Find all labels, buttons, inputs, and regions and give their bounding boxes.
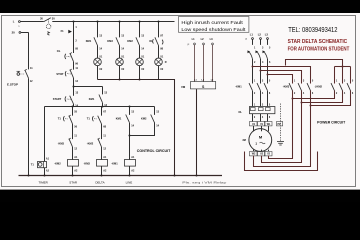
STOP NC tick — [70, 69, 72, 70]
E.STOP NC tick — [24, 69, 26, 70]
svg-text:R: R — [165, 61, 167, 64]
KM2 pole 1 top wire — [334, 67, 336, 84]
E.STOP column lower wire to bus — [28, 78, 30, 175]
junction bus / lamp rail — [174, 175, 176, 177]
supply terminal L1 — [252, 38, 254, 40]
KM2 pole 2 top wire — [342, 67, 344, 84]
tap wire L3 to KM3 pole — [268, 75, 293, 84]
T1 star actuator link — [65, 118, 68, 120]
svg-text:STAR: STAR — [69, 180, 78, 184]
STOP actuator arc — [64, 71, 67, 76]
delta coil wire to bus — [101, 166, 103, 175]
breaker pole 3 blade — [264, 52, 267, 59]
svg-text:-KM3: -KM3 — [58, 141, 65, 145]
main column wire to node A — [73, 104, 75, 107]
motor terminal V1 box — [258, 122, 266, 126]
KM1 pole 1 lower wire — [252, 91, 254, 107]
junction line branch / KM2 aux — [129, 135, 131, 137]
supply wire L1 upper — [252, 39, 254, 45]
junction top rail / lamp branch 3 — [139, 21, 141, 23]
star branch wire to coil — [72, 147, 74, 160]
OL heater element 1 — [251, 108, 256, 111]
svg-text:-KM1: -KM1 — [235, 84, 242, 88]
push button START NO blade — [70, 96, 74, 104]
svg-text:OL: OL — [57, 49, 61, 53]
junction bus / star coil — [72, 175, 74, 177]
junction top rail / main column — [73, 21, 75, 23]
contactor KM3 pole 3 blade — [307, 83, 311, 91]
aux contact KM2 NO blade — [151, 115, 155, 123]
main column wire OL to STOP — [73, 62, 75, 70]
motor terminal V2 box — [265, 152, 273, 156]
svg-text:KM1: KM1 — [89, 97, 95, 101]
junction bus / timer — [44, 175, 46, 177]
rail1 wire to latch contact — [74, 86, 103, 88]
contactor KM1 pole 1 blade — [249, 83, 253, 91]
contactor KM3 pole 2 blade — [298, 83, 302, 91]
svg-text:KM2: KM2 — [141, 117, 147, 121]
tap wire L2 to KM3 pole — [261, 71, 302, 84]
thermal OL actuator arc left — [152, 39, 155, 43]
KM2 aux branch wire upper — [154, 107, 156, 115]
timer T1 body — [38, 162, 47, 168]
KM1 pole 2 lower wire — [260, 91, 262, 107]
tap junction L2 — [260, 70, 262, 72]
KM2 top bar wire — [335, 66, 351, 68]
thermal OL actuator hook — [161, 40, 164, 45]
svg-text:-KM3: -KM3 — [283, 84, 290, 88]
line branch wire upper — [129, 107, 131, 115]
breaker pole 2 blade — [257, 52, 260, 59]
contactor KM2 pole 3 blade — [347, 83, 351, 91]
E.STOP mushroom cap — [17, 70, 21, 72]
motor M 3 phase — [249, 129, 272, 152]
VM feed wire L1 — [194, 45, 196, 82]
phase column L2 wire — [260, 59, 262, 84]
lamp branch 3 wire middle — [139, 46, 141, 59]
disconnect switch blade — [44, 18, 51, 22]
junction top rail / lamp branch 1 — [97, 21, 99, 23]
timer T1 coil circle — [38, 163, 42, 167]
STOP actuator link — [67, 73, 71, 75]
ground symbol — [277, 142, 284, 146]
star coil wire to bus — [72, 166, 74, 175]
lamp 4 cross 2 — [156, 59, 161, 64]
svg-text:FOR AUTOMATION STUDENT: FOR AUTOMATION STUDENT — [288, 46, 350, 52]
junction lamp bus 2 — [119, 79, 121, 81]
wire U1 to motor — [253, 126, 255, 131]
svg-text:L1: L1 — [250, 33, 254, 37]
motor terminal U2 box — [258, 152, 266, 156]
switch symbol mark 2 — [47, 33, 49, 36]
wire motor to terminal V2 — [268, 150, 270, 151]
OL actuator arc — [64, 54, 67, 59]
delta branch wire middle — [101, 124, 103, 139]
junction bus / VM wire — [196, 175, 198, 177]
svg-text:POWER CIRCUIT: POWER CIRCUIT — [317, 121, 346, 125]
svg-text:-KM1: -KM1 — [111, 162, 118, 166]
contactor coil KM1 line — [125, 160, 136, 167]
junction top rail / lamp branch 4 — [158, 21, 160, 23]
KM2 feed stub wire — [286, 60, 343, 67]
switch actuator dashed circle — [46, 24, 51, 29]
aux contact OL blade lamp branch 4 — [155, 37, 159, 45]
indicator lamp 3 — [136, 58, 144, 66]
outer loop wire — [245, 152, 318, 171]
svg-text:START: START — [53, 97, 62, 101]
wire motor to terminal W2 — [253, 150, 255, 151]
contactor KM2 pole 2 blade — [339, 83, 343, 91]
supply terminal L3 — [267, 38, 269, 40]
star branch wire upper — [72, 107, 74, 116]
PE conductor wire — [280, 104, 282, 142]
fault note box — [179, 17, 249, 33]
svg-text:DELTA: DELTA — [95, 180, 104, 184]
junction KM2 bar — [342, 66, 344, 68]
motor terminal W1 box — [265, 122, 273, 126]
lamp branch 3 wire upper — [139, 22, 141, 38]
push button E.STOP NC blade — [25, 70, 29, 78]
svg-text:L3: L3 — [265, 33, 269, 37]
aux contact KM1 blade lamp branch 1 — [94, 37, 98, 45]
KM2 pole 2 link wire to KM3 column — [302, 91, 343, 103]
thermal overload relay box — [250, 107, 275, 114]
T1 delta actuator arc — [91, 116, 94, 121]
timer wire to bus — [44, 168, 46, 176]
KM2 pole 3 top wire — [350, 67, 352, 84]
timer branch wire — [44, 107, 46, 162]
lamp branch 1 wire upper — [97, 22, 99, 38]
terminal PE box — [277, 122, 283, 126]
lamp 4 cross 1 — [156, 59, 161, 64]
svg-text:OL: OL — [238, 110, 242, 114]
svg-text:TEL: 08039493412: TEL: 08039493412 — [288, 27, 337, 34]
motor terminal U1 box — [250, 122, 258, 126]
main column wire STOP to START — [73, 78, 75, 96]
KM3 NC tick — [69, 138, 71, 139]
T1 star actuator arc — [62, 116, 65, 121]
wire W1 to motor — [268, 126, 270, 131]
KM2 NC tick — [98, 138, 100, 139]
neutral bottom bus wire — [19, 175, 223, 177]
OL output wire 3 — [267, 114, 269, 122]
lamp 3 cross 2 — [137, 59, 142, 64]
line coil wire to bus — [129, 166, 131, 175]
svg-text:KM1: KM1 — [116, 117, 122, 121]
VM terminal L1 — [194, 43, 196, 45]
contactor KM1 pole 2 blade — [257, 83, 261, 91]
lamp branch 4 wire upper — [158, 22, 160, 38]
line branch wire to coil — [129, 123, 131, 160]
contactor coil KM3 delta — [97, 160, 108, 167]
junction node rail1 — [73, 86, 75, 88]
E.STOP column upper wire — [28, 32, 30, 69]
svg-text:3: 3 — [255, 142, 257, 146]
contactor KM2 pole 1 blade — [331, 83, 335, 91]
timer contact T1 55-56 blade — [69, 116, 73, 124]
lamp 3 cross 1 — [137, 59, 142, 64]
breaker pole 1 arrow — [248, 50, 251, 53]
VM feed wire L3 — [212, 45, 214, 82]
svg-text:KM3: KM3 — [107, 39, 113, 43]
latch branch wire upper — [102, 87, 104, 95]
switch symbol mark 1 — [47, 32, 49, 34]
phase column L3 wire — [267, 59, 269, 84]
lamp branch 1 wire lower — [97, 65, 99, 79]
junction KM3 column 1 — [292, 98, 294, 100]
OL heater element 3 — [266, 108, 271, 111]
push button STOP NC blade — [70, 70, 74, 78]
svg-text:High inrush current Fault: High inrush current Fault — [181, 20, 243, 25]
svg-text:KM2: KM2 — [127, 39, 133, 43]
junction bus / E.STOP — [28, 175, 30, 177]
motor terminal W2 box — [250, 152, 258, 156]
junction bus / delta coil — [101, 175, 103, 177]
timer contact T1 67-68 blade — [98, 116, 102, 124]
svg-text:VM: VM — [181, 85, 186, 89]
VM terminal L3 — [212, 43, 214, 45]
top rail wire — [52, 21, 174, 23]
svg-text:3M: 3M — [242, 139, 245, 142]
KM3 pole 1 wire loop to V2 — [269, 91, 293, 159]
OL contact tick — [70, 53, 72, 54]
junction node A / star branch — [72, 106, 74, 108]
delta branch wire to coil — [101, 147, 103, 160]
E.STOP actuator link — [20, 73, 25, 75]
lamp branch 4 wire lower — [158, 65, 160, 79]
T1 55-56 tick — [69, 115, 71, 116]
svg-text:L2: L2 — [258, 33, 262, 37]
breaker pole 2 arrow — [256, 50, 259, 53]
OL heater element 2 — [259, 108, 264, 111]
svg-text:E.STOP: E.STOP — [7, 83, 18, 87]
junction bus / line coil — [129, 175, 131, 177]
wire KM2 aux to line branch — [130, 123, 155, 136]
supply terminal L2 — [260, 38, 262, 40]
aux contact KM1 13-14 blade — [99, 95, 103, 103]
junction node A / latch bottom — [102, 106, 104, 108]
contactor coil KM2 star — [68, 160, 79, 167]
svg-text:TIMER: TIMER — [39, 180, 49, 184]
junction KM3 column 2 — [301, 102, 303, 104]
svg-text:STOP: STOP — [56, 72, 63, 76]
wire motor to terminal U2 — [261, 150, 263, 151]
KM3 pole 3 wire loop to W2 — [254, 91, 311, 167]
T1 delta actuator link — [94, 118, 97, 120]
svg-text:STAR DELTA SCHEMATIC: STAR DELTA SCHEMATIC — [288, 39, 348, 45]
svg-text:20: 20 — [12, 31, 16, 35]
delta branch wire upper — [101, 107, 103, 116]
KM3 pole 2 wire loop to U2 — [262, 91, 302, 163]
junction node A / line branch — [129, 106, 131, 108]
supply wire L3 upper — [267, 39, 269, 45]
supply wire L2 upper — [260, 39, 262, 45]
terminal L — [19, 21, 21, 23]
lamp 2 cross 1 — [117, 59, 122, 64]
aux KM1 NO blade line branch — [126, 115, 130, 123]
wire L to disconnect switch — [20, 21, 44, 23]
KM1 pole 3 lower wire — [267, 91, 269, 107]
tap junction L3 — [267, 74, 269, 76]
lamp 1 cross 1 — [95, 59, 100, 64]
tap wire L1 to KM3 pole — [253, 67, 311, 84]
VM relay wire to bus — [196, 89, 198, 175]
VM feed wire L2 — [203, 45, 205, 82]
svg-text:Low speed shutdown Fault: Low speed shutdown Fault — [181, 27, 246, 32]
voltage monitor relay VM box — [191, 82, 216, 89]
OL output wire 1 — [252, 114, 254, 122]
fuse F1 — [68, 30, 72, 34]
star branch wire middle — [72, 124, 74, 139]
rail2 node A wire — [45, 106, 155, 108]
svg-text:KM1: KM1 — [86, 39, 92, 43]
interlock KM3 NC blade — [69, 139, 73, 147]
svg-text:Pls. seq i VM Relay: Pls. seq i VM Relay — [182, 181, 227, 185]
KM2 pole 3 link wire to KM3 column — [311, 91, 351, 106]
E.STOP mushroom head — [17, 73, 20, 76]
lamp 2 cross 2 — [117, 59, 122, 64]
junction lamp bus 3 — [139, 79, 141, 81]
interlock KM2 NC blade — [98, 139, 102, 147]
motor tilde mark — [260, 142, 266, 144]
OL output wire 2 — [260, 114, 262, 122]
junction top rail / lamp branch 2 — [119, 21, 121, 23]
switch actuator link — [48, 19, 50, 24]
svg-text:CONTROL CIRCUIT: CONTROL CIRCUIT — [137, 149, 171, 153]
breaker pole 1 blade — [249, 52, 252, 59]
phase column L1 wire — [252, 59, 254, 84]
OL actuator link — [67, 55, 71, 58]
aux contact KM2 blade lamp branch 3 — [136, 37, 140, 45]
junction KM3 column 3 — [310, 105, 312, 107]
lamp 1 cross 2 — [95, 59, 100, 64]
svg-text:-KM2: -KM2 — [87, 141, 94, 145]
lamp return bus wire — [98, 80, 175, 176]
START actuator link — [67, 98, 71, 100]
lamp branch 2 wire upper — [119, 22, 121, 38]
lamp branch 2 wire lower — [119, 65, 121, 79]
E.STOP mushroom stem — [17, 71, 19, 72]
VM terminal L2 — [203, 43, 205, 45]
svg-text:LINE: LINE — [126, 180, 133, 184]
lamp branch 2 wire middle — [119, 46, 121, 59]
wire V1 to motor — [261, 126, 263, 131]
svg-text:-KM2: -KM2 — [54, 162, 61, 166]
main column wire upper — [73, 22, 75, 54]
terminal 20 — [19, 32, 21, 34]
wire 20 to E.STOP column — [21, 32, 29, 34]
contactor KM3 pole 1 blade — [289, 83, 293, 91]
breaker pole 3 arrow — [263, 50, 266, 53]
overload contact 95-96 blade — [70, 53, 74, 61]
svg-text:L: L — [13, 19, 15, 23]
indicator lamp 2 — [116, 58, 124, 66]
lamp branch 4 wire middle — [158, 46, 160, 59]
lamp branch 3 wire lower — [139, 65, 141, 79]
lamp branch 1 wire middle — [97, 46, 99, 59]
KM2 pole 1 link wire to KM3 column — [293, 91, 335, 99]
timer body divider — [43, 161, 45, 167]
svg-text:(-KM2: (-KM2 — [315, 84, 323, 88]
tap junction L1 — [252, 66, 254, 68]
aux contact KM3 blade lamp branch 2 — [116, 37, 120, 45]
START actuator arc — [64, 96, 67, 101]
indicator lamp 1 — [94, 58, 102, 66]
indicator lamp 4 — [155, 58, 163, 66]
contactor KM1 pole 3 blade — [264, 83, 268, 91]
latch branch wire lower — [102, 103, 104, 107]
svg-text:-KM3: -KM3 — [84, 162, 91, 166]
